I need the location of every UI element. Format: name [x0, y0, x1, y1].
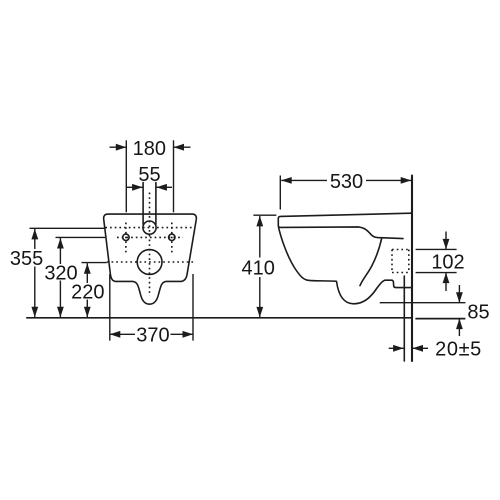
arrow 55 right — [156, 184, 167, 191]
arrow 180 left — [116, 144, 127, 151]
dim 370 line — [110, 333, 193, 335]
side bowl interior curve — [360, 238, 382, 286]
dim 55 tail right — [156, 186, 172, 188]
arrow 410 up — [256, 216, 263, 227]
arrow 85 up — [456, 319, 463, 330]
svg-text:370: 370 — [136, 325, 169, 347]
dim 410 line — [259, 216, 261, 318]
dim 530 line — [281, 179, 411, 181]
centerline inlet horizontal — [105, 227, 194, 229]
dim 102 ext top — [416, 248, 457, 250]
mounting hole left — [123, 234, 129, 240]
centerline hole left vertical — [125, 223, 127, 253]
svg-text:20±5: 20±5 — [435, 339, 482, 361]
dim 180 tail left — [110, 146, 127, 148]
dim 85 arrow shaft top — [458, 285, 460, 303]
dim 85 ext top — [380, 302, 466, 304]
svg-text:220: 220 — [71, 282, 104, 304]
mounting hole right — [169, 234, 175, 240]
dim 180 extension left — [125, 140, 127, 212]
dim 530 ext left — [279, 176, 281, 210]
dim 220 ext line — [82, 262, 107, 264]
svg-text:355: 355 — [10, 248, 43, 270]
svg-text:180: 180 — [133, 138, 166, 160]
arrow 220 down — [84, 307, 91, 318]
drain circle — [137, 250, 162, 275]
arrow 370 right — [183, 331, 194, 338]
arrow 20 left-side — [393, 345, 404, 352]
dim 320 ext line — [56, 236, 106, 238]
dim 370 ext left — [109, 274, 111, 341]
dim 102 arrow shaft top — [445, 232, 447, 250]
centerline vertical front — [149, 193, 151, 297]
dim 355 ext line — [30, 227, 105, 229]
centerline hole right vertical — [171, 223, 173, 253]
dim 220 line — [86, 263, 88, 317]
svg-text:530: 530 — [330, 171, 363, 193]
dim 102 ext bottom — [416, 272, 457, 274]
dim 370 ext right — [192, 274, 194, 341]
floor line — [26, 317, 413, 319]
outlet box left dotted — [391, 250, 393, 273]
arrow 355 up — [31, 229, 38, 240]
dim 180 tail right — [174, 146, 191, 148]
arrow 320 up — [57, 238, 64, 249]
dim 85 ext bottom / floor right — [415, 318, 465, 320]
arrow 102 up — [443, 273, 450, 284]
svg-text:55: 55 — [138, 164, 160, 186]
outlet box top dotted — [392, 249, 409, 251]
arrow 530 right — [401, 177, 412, 184]
arrow 102 down — [443, 239, 450, 250]
svg-text:85: 85 — [467, 302, 489, 324]
inlet pipe left wall — [142, 183, 144, 225]
centerline holes horizontal — [117, 236, 183, 238]
dim 355 line — [34, 229, 36, 317]
arrow 320 down — [57, 307, 64, 318]
arrow 355 down — [31, 307, 38, 318]
dim 320 line — [59, 238, 61, 317]
dim 180 extension right — [173, 140, 175, 212]
wall line — [411, 176, 413, 362]
center lines (dotted) — [105, 193, 194, 297]
svg-text:102: 102 — [431, 252, 464, 274]
outlet box right dotted — [408, 250, 410, 273]
side top surface — [278, 213, 411, 238]
outlet box bottom dotted — [392, 272, 409, 274]
dim 102 arrow shaft bottom — [445, 273, 447, 291]
arrow 180 right — [174, 144, 185, 151]
outlet pipe line — [403, 276, 405, 361]
front body outline — [104, 214, 197, 304]
arrow 410 down — [256, 307, 263, 318]
svg-text:410: 410 — [242, 257, 275, 279]
dim 85 arrow shaft bottom — [458, 319, 460, 336]
hidden outlet box (dotted) — [392, 250, 409, 273]
arrow 20 right-side — [413, 345, 424, 352]
inlet pipe right wall — [155, 183, 157, 225]
dim 20 tail right — [413, 347, 429, 349]
inlet circle — [143, 221, 156, 234]
centerline drain horizontal — [107, 261, 194, 263]
arrow 220 up — [84, 263, 91, 274]
arrow 55 left — [132, 184, 143, 191]
arrow 85 down — [456, 292, 463, 303]
dim 410 ext top — [253, 214, 276, 216]
arrow 370 left — [110, 331, 121, 338]
side front slope and underside — [279, 228, 412, 304]
dim 20 tail left — [389, 347, 404, 349]
dim 55 tail left — [127, 186, 143, 188]
arrow 530 left — [281, 177, 292, 184]
